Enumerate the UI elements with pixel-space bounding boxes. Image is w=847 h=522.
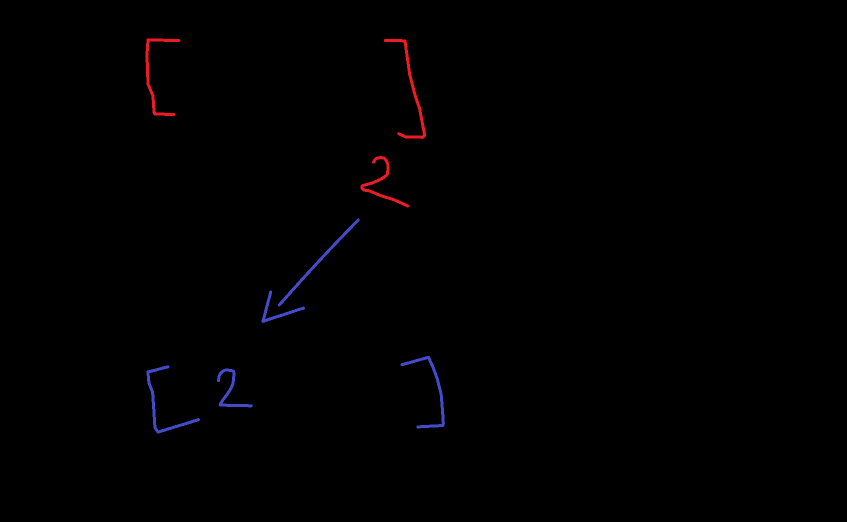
blue right bracket (402, 357, 443, 427)
blue arrowhead (263, 292, 304, 321)
blue left bracket (148, 367, 199, 432)
blue digit 2 (219, 370, 252, 406)
blue arrow shaft (279, 220, 358, 305)
red left bracket (147, 40, 179, 115)
red right bracket (386, 41, 425, 138)
red digit 2 (362, 158, 408, 206)
